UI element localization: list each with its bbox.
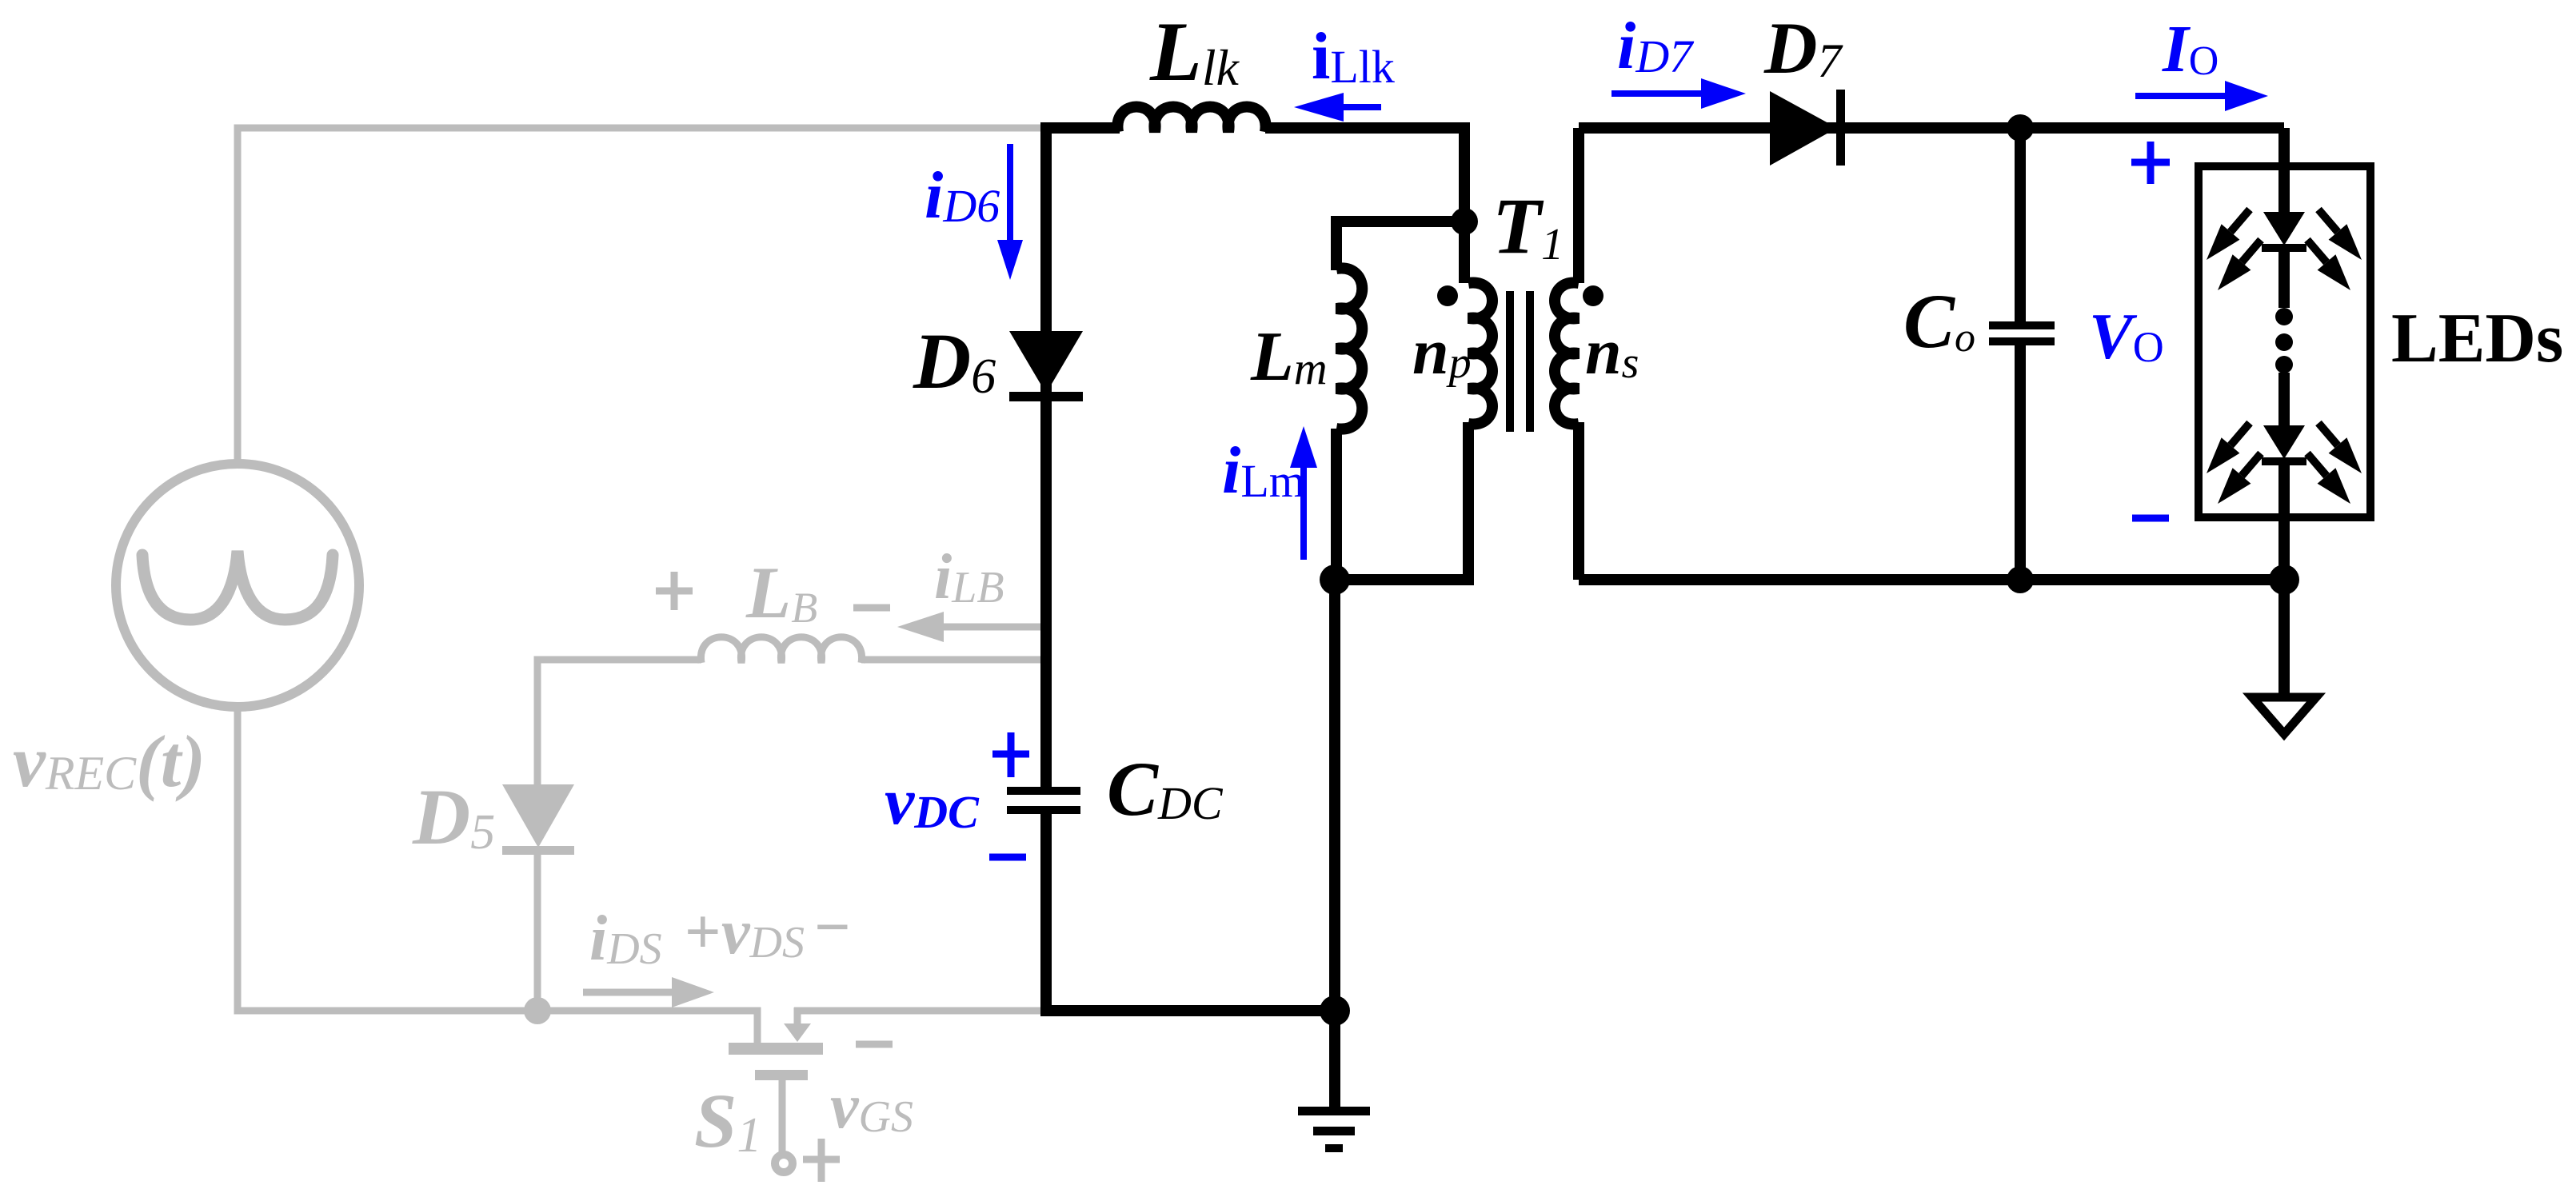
label + (VO) bbox=[2131, 159, 2170, 166]
svg-text:LEDs: LEDs bbox=[2391, 300, 2563, 377]
wire: top rail corner into LED box bbox=[2278, 128, 2290, 212]
diode D6 bbox=[1009, 331, 1083, 393]
inductor Llk bbox=[1117, 107, 1265, 133]
junction dot Lm bottom bbox=[1320, 565, 1350, 595]
wire: Lm bottom lead bbox=[1331, 429, 1342, 580]
LED 2 light arrows bbox=[2231, 423, 2250, 445]
svg-text:−: − bbox=[814, 892, 851, 963]
voltage source vREC(t) circle bbox=[116, 464, 359, 707]
wire: primary bottom bbox=[1335, 422, 1468, 580]
transformer secondary ns winding bbox=[1555, 283, 1579, 425]
wire: T1 node to Lm top bbox=[1336, 221, 1464, 270]
current arrow iD7 bbox=[1611, 90, 1701, 97]
wire: LB left corner down to D5 bbox=[537, 660, 701, 788]
junction dot Co bottom bbox=[2007, 566, 2034, 593]
wire: D6 to CDC bbox=[1040, 397, 1052, 788]
transistor S1 arrow bbox=[794, 1007, 801, 1023]
current arrow iDS bbox=[583, 989, 672, 996]
wire: source bottom down bbox=[238, 704, 757, 1048]
transformer primary np winding bbox=[1468, 283, 1492, 425]
transformer primary polarity dot bbox=[1437, 285, 1458, 306]
wire: CDC bottom to ground rail bbox=[1046, 814, 1334, 1011]
label - (LB right) bbox=[853, 604, 890, 612]
wire: ns bottom lead bbox=[1573, 422, 1584, 580]
LED 1 bbox=[2263, 212, 2305, 245]
wire: Co bottom lead bbox=[2015, 344, 2026, 580]
capacitor CDC bbox=[1007, 787, 1080, 795]
LED string dots bbox=[2275, 308, 2293, 325]
transistor S1 channel bar bbox=[729, 1043, 823, 1055]
ground arrow (output return) bbox=[2252, 697, 2316, 734]
wire: LED string bottom bbox=[2278, 465, 2290, 694]
inductor LB bbox=[701, 637, 861, 663]
wire: to ground symbol bbox=[1329, 1011, 1340, 1108]
junction dot Co top bbox=[2007, 114, 2034, 142]
LED 2 bbox=[2278, 373, 2290, 425]
current arrow IO bbox=[2135, 93, 2225, 99]
current arrow iLm bbox=[1300, 468, 1307, 560]
LED box bbox=[2199, 166, 2370, 517]
capacitor Co bbox=[1989, 321, 2055, 329]
junction dot ground node bbox=[1320, 996, 1350, 1026]
label + (vDC) bbox=[992, 751, 1029, 758]
transistor S1 gate terminal bbox=[775, 1155, 793, 1172]
wire: ns top lead to secondary rail bbox=[1573, 128, 1584, 283]
current arrow iD6 bbox=[1007, 144, 1013, 240]
current arrow iLlk bbox=[1344, 104, 1381, 110]
ground bbox=[1298, 1107, 1370, 1115]
label + (vGS bottom) bbox=[803, 1156, 840, 1163]
wire: source top to top rail bbox=[238, 128, 1044, 466]
inductor Lm bbox=[1336, 268, 1362, 429]
wire: secondary top rail bbox=[1579, 122, 2284, 134]
LED 1 light arrows bbox=[2231, 209, 2250, 232]
node T1 top junction bbox=[1451, 208, 1478, 235]
wire: D5 to bottom rail bbox=[534, 852, 541, 1011]
junction dot D5/bottom rail bbox=[524, 997, 551, 1024]
wire: Co top lead bbox=[2015, 128, 2026, 323]
diode D5 bbox=[502, 784, 574, 848]
wire: LB to CDC branch bbox=[861, 656, 1046, 664]
transformer T1 core bbox=[1506, 291, 1514, 432]
transistor S1 gate bar bbox=[755, 1070, 808, 1080]
label - (vDC) bbox=[989, 854, 1026, 861]
wire: Lm bottom node down to ground node bbox=[1329, 580, 1340, 1011]
transformer secondary polarity dot bbox=[1583, 285, 1604, 306]
transistor S1 gate lead bbox=[779, 1080, 786, 1156]
rectified-sine symbol inside source bbox=[142, 551, 333, 620]
wire: black top rail left (Llk section) bbox=[1046, 128, 1120, 660]
wire: Llk to T1 corner bbox=[1265, 128, 1464, 283]
diode D7 bbox=[1770, 91, 1837, 166]
label + (LB left) bbox=[656, 588, 693, 595]
svg-text:+: + bbox=[685, 897, 721, 968]
wire: secondary bottom rail bbox=[1579, 574, 2284, 585]
wire: gray rail right of S1 drain bbox=[794, 1007, 1046, 1015]
label - (VO) bbox=[2132, 515, 2169, 522]
label - (vGS top) bbox=[856, 1041, 893, 1048]
current arrow iLB bbox=[944, 624, 1048, 631]
junction dot LED bottom bbox=[2269, 565, 2299, 595]
